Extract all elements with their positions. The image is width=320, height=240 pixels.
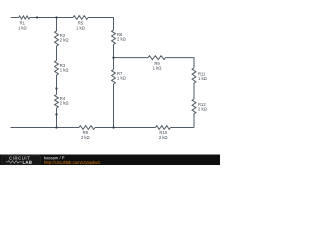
resistor R11 (192, 68, 196, 83)
svg-text:1 kΩ: 1 kΩ (198, 76, 207, 81)
junction node col2 R9 (112, 56, 114, 58)
svg-text:2 kΩ: 2 kΩ (117, 36, 126, 41)
svg-text:2 kΩ: 2 kΩ (198, 107, 207, 112)
junction dot col1 mid2 (55, 113, 57, 115)
resistor R7 (112, 70, 116, 85)
junction node col1 top (55, 16, 57, 18)
svg-text:1 kΩ: 1 kΩ (76, 25, 85, 30)
svg-text:LAB: LAB (22, 160, 32, 165)
junction node col2 bottom (112, 126, 114, 128)
resistor R8 (79, 126, 95, 130)
svg-text:2 kΩ: 2 kΩ (81, 135, 90, 140)
watermark bar (0, 155, 220, 166)
junction node col1 bottom (55, 126, 57, 128)
svg-text:1 kΩ: 1 kΩ (153, 66, 162, 71)
svg-text:2 kΩ: 2 kΩ (159, 135, 168, 140)
svg-text:1 kΩ: 1 kΩ (18, 25, 27, 30)
resistor R2 (55, 31, 59, 46)
svg-text:1 kΩ: 1 kΩ (117, 76, 126, 81)
logo box (2, 155, 41, 164)
wire column 1 (56, 18, 58, 128)
wire R9 net (114, 58, 195, 128)
svg-text:http://circuitlab.com/c/y5pdw3: http://circuitlab.com/c/y5pdw3 (44, 160, 100, 165)
resistor R6 (112, 30, 116, 45)
wire top net (11, 18, 114, 128)
resistor R3 (55, 61, 59, 76)
junction dot col1 mid1 (55, 87, 57, 89)
resistor R4 (55, 95, 59, 109)
logo resistor glyph (6, 161, 22, 164)
resistor R1 (19, 16, 30, 19)
junction dot top wire (36, 16, 38, 18)
resistor R9 (148, 56, 166, 60)
wire bottom net (11, 127, 195, 129)
svg-text:2 kΩ: 2 kΩ (60, 101, 69, 106)
svg-text:2 kΩ: 2 kΩ (60, 38, 69, 43)
resistor R5 (73, 16, 88, 20)
resistor R12 (192, 99, 196, 114)
resistor R10 (156, 126, 171, 130)
svg-text:1 kΩ: 1 kΩ (60, 68, 69, 73)
